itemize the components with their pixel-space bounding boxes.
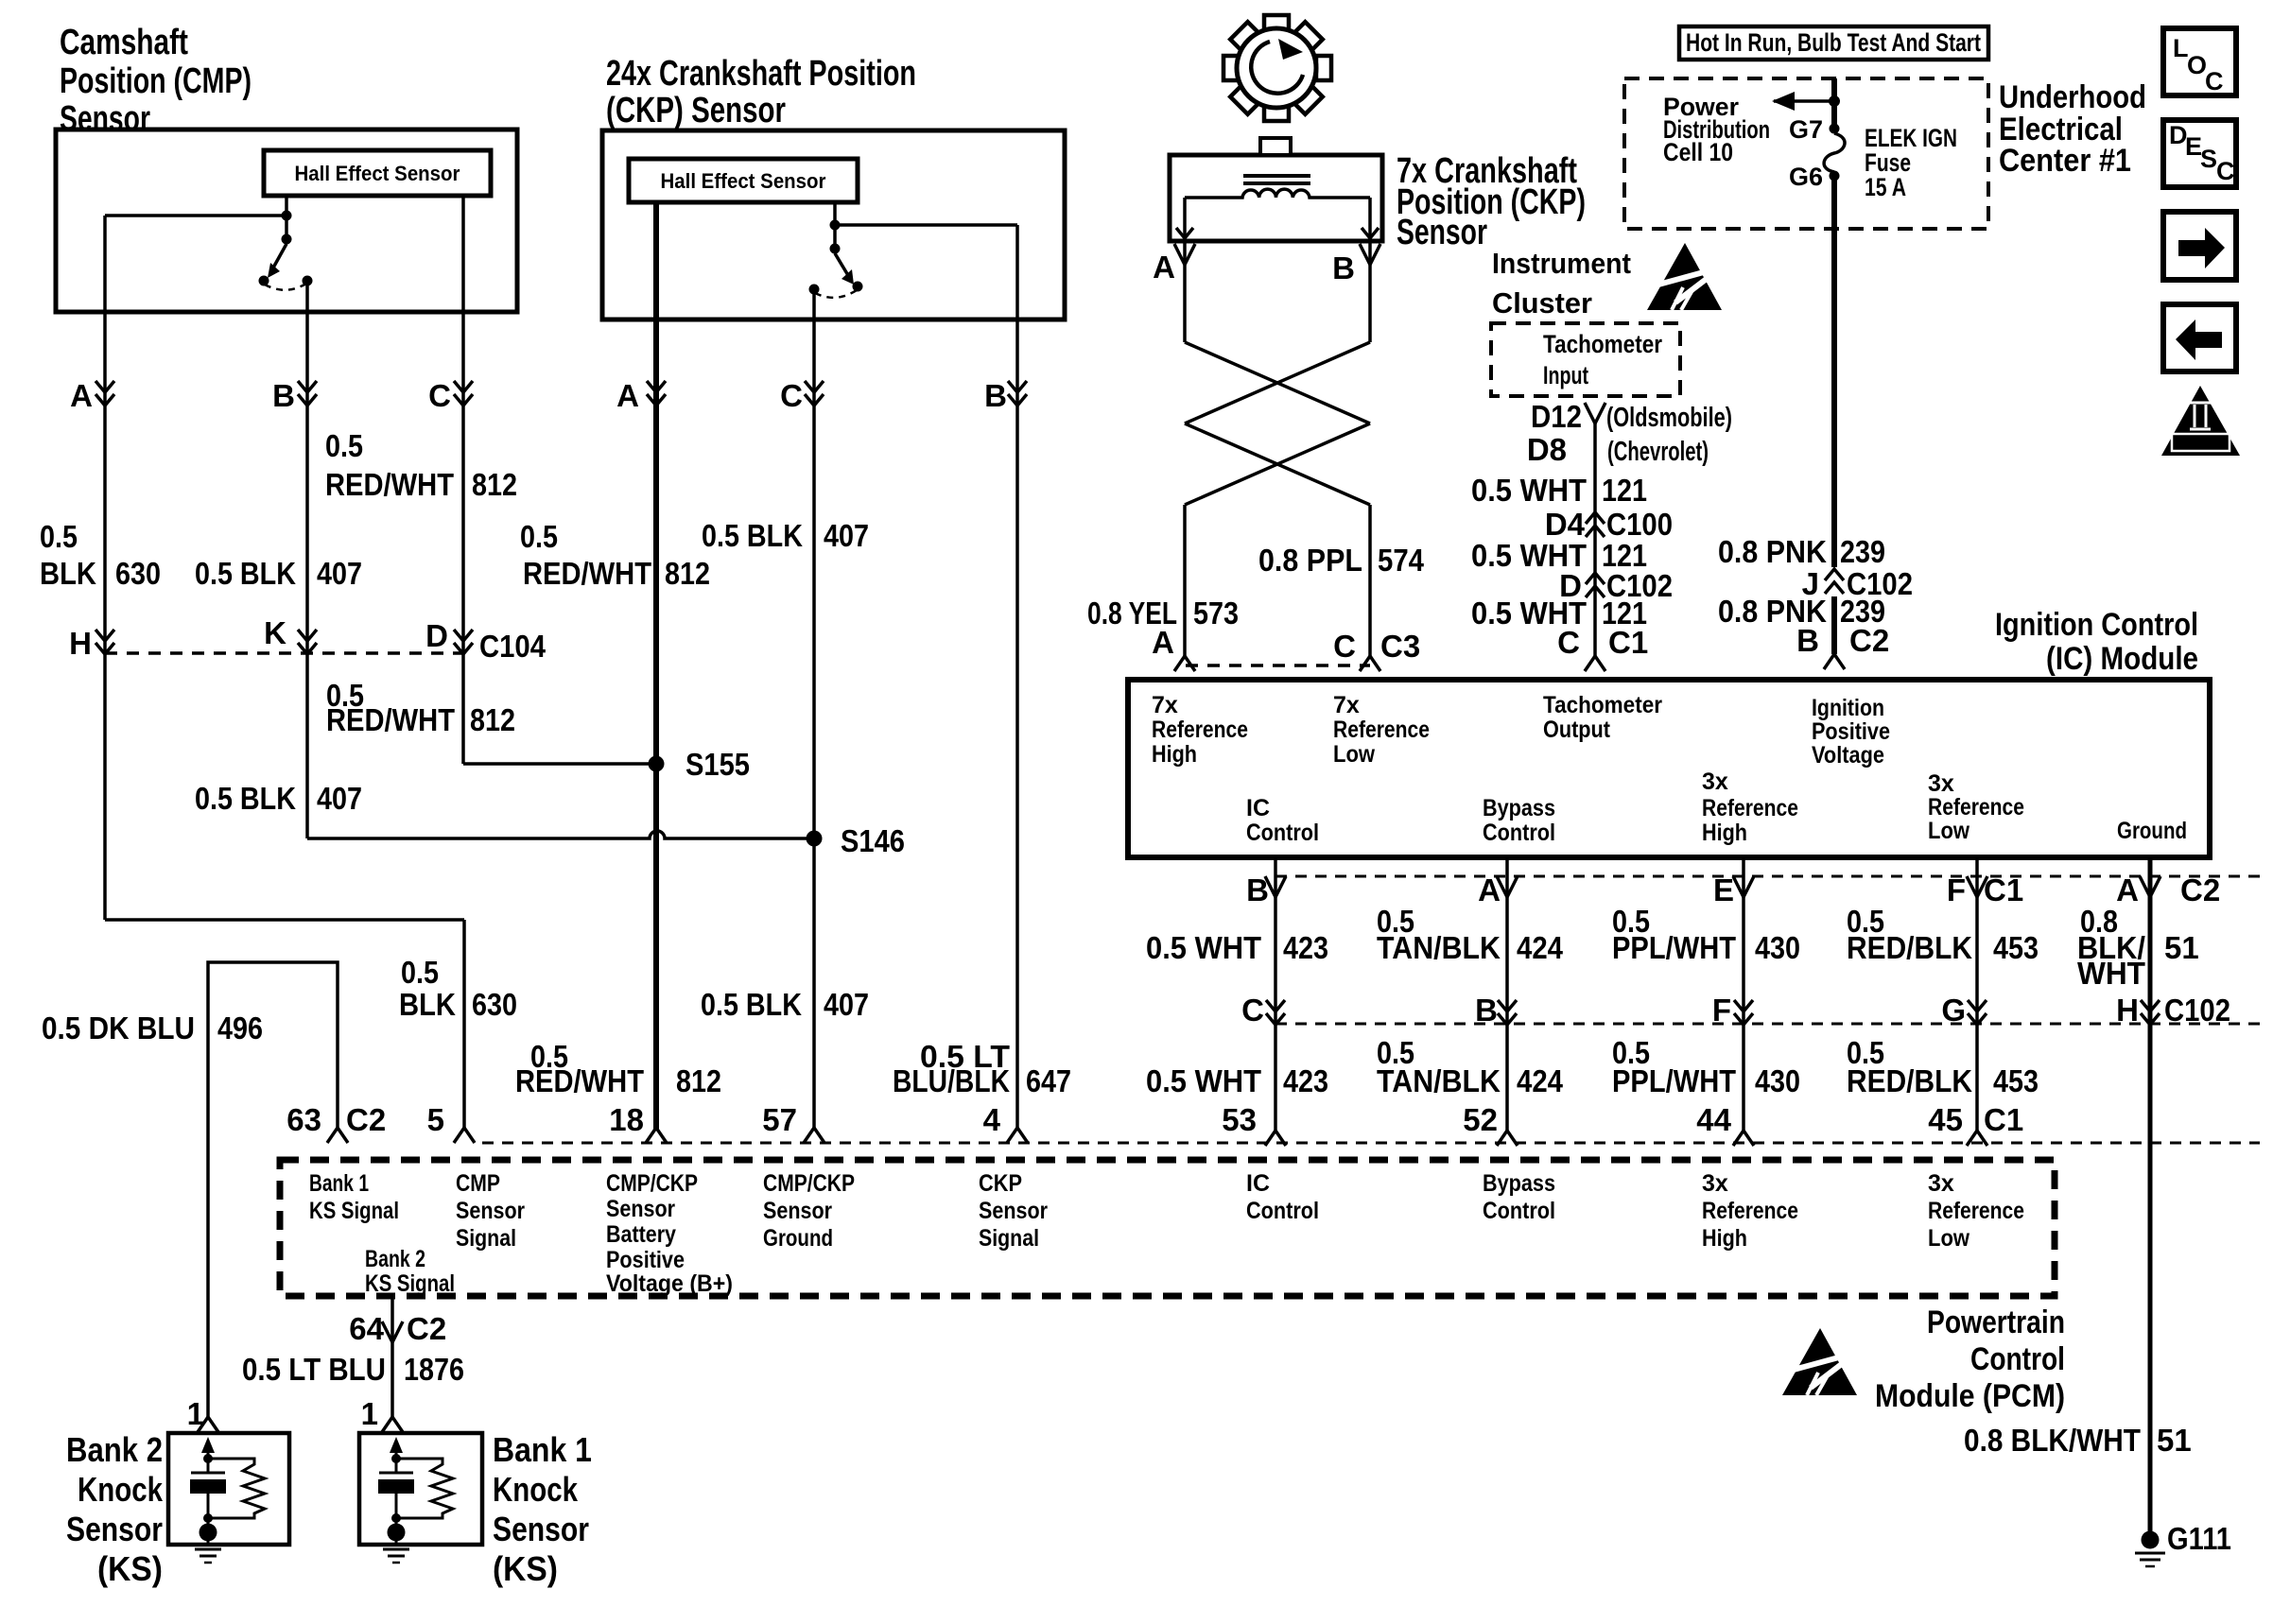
svg-text:High: High [1152, 741, 1197, 768]
svg-text:Position (CMP): Position (CMP) [60, 61, 252, 101]
svg-text:Bypass: Bypass [1483, 1170, 1555, 1197]
svg-text:Reference: Reference [1152, 717, 1248, 743]
svg-text:(KS): (KS) [97, 1549, 163, 1588]
svg-text:0.8 BLK/WHT: 0.8 BLK/WHT [1964, 1423, 2141, 1458]
svg-text:B: B [1246, 872, 1269, 907]
svg-text:Tachometer: Tachometer [1543, 692, 1662, 718]
svg-text:0.5 LT BLU: 0.5 LT BLU [242, 1352, 386, 1387]
svg-text:44: 44 [1696, 1102, 1731, 1137]
svg-text:A: A [2116, 872, 2139, 907]
svg-text:RED/BLK: RED/BLK [1847, 930, 1972, 965]
svg-text:C2: C2 [1849, 623, 1889, 658]
svg-text:0.8 PNK: 0.8 PNK [1718, 534, 1827, 569]
svg-text:BLU/BLK: BLU/BLK [893, 1063, 1010, 1098]
svg-text:Camshaft: Camshaft [60, 23, 188, 62]
svg-text:45: 45 [1928, 1102, 1963, 1137]
svg-text:TAN/BLK: TAN/BLK [1377, 1063, 1501, 1098]
svg-text:Input: Input [1543, 361, 1588, 389]
svg-text:C: C [428, 378, 451, 413]
svg-text:574: 574 [1378, 543, 1425, 578]
svg-text:F: F [1947, 872, 1966, 907]
svg-text:0.5 BLK: 0.5 BLK [702, 518, 803, 553]
svg-text:0.5 WHT: 0.5 WHT [1471, 473, 1587, 508]
svg-text:18: 18 [609, 1102, 644, 1137]
svg-text:0.5 BLK: 0.5 BLK [195, 781, 296, 816]
svg-text:High: High [1702, 1225, 1747, 1252]
svg-text:CMP/CKP: CMP/CKP [606, 1170, 698, 1197]
svg-text:D: D [425, 618, 448, 653]
svg-text:423: 423 [1283, 1063, 1328, 1098]
svg-text:Hall Effect Sensor: Hall Effect Sensor [661, 169, 826, 193]
svg-text:E: E [1713, 872, 1734, 907]
svg-text:CMP: CMP [456, 1170, 500, 1197]
svg-text:Sensor: Sensor [493, 1510, 589, 1548]
svg-text:B: B [1796, 623, 1819, 658]
svg-text:64: 64 [349, 1311, 384, 1346]
svg-text:0.5: 0.5 [401, 955, 439, 990]
svg-text:Bank 2: Bank 2 [365, 1246, 425, 1272]
svg-text:(KS): (KS) [493, 1549, 558, 1588]
svg-text:RED/WHT: RED/WHT [326, 702, 455, 737]
svg-text:PPL/WHT: PPL/WHT [1612, 930, 1736, 965]
svg-text:IC: IC [1246, 1170, 1270, 1197]
svg-text:B: B [1475, 993, 1498, 1028]
svg-text:OBD II: OBD II [2178, 435, 2222, 451]
svg-text:0.5: 0.5 [520, 519, 558, 554]
svg-text:Low: Low [1333, 741, 1375, 768]
svg-text:C: C [2205, 67, 2224, 95]
svg-text:BLK: BLK [399, 987, 456, 1022]
svg-text:A: A [616, 378, 639, 413]
svg-text:Knock: Knock [78, 1470, 164, 1509]
svg-text:121: 121 [1602, 473, 1647, 508]
svg-text:C2: C2 [407, 1311, 446, 1346]
svg-text:A: A [1478, 872, 1501, 907]
svg-text:Positive: Positive [606, 1247, 685, 1273]
svg-text:407: 407 [317, 556, 362, 591]
svg-text:A: A [1152, 625, 1174, 660]
svg-text:C: C [780, 378, 803, 413]
svg-text:496: 496 [217, 1011, 263, 1045]
svg-text:3x: 3x [1702, 1170, 1728, 1197]
svg-text:573: 573 [1193, 596, 1239, 631]
svg-text:G: G [1941, 993, 1966, 1028]
svg-text:51: 51 [2164, 930, 2199, 965]
svg-text:Battery: Battery [606, 1221, 676, 1248]
svg-text:O: O [2187, 51, 2207, 79]
svg-text:C1: C1 [1984, 1102, 2023, 1137]
svg-text:KS Signal: KS Signal [309, 1198, 399, 1224]
svg-text:1876: 1876 [404, 1352, 464, 1387]
svg-text:Ground: Ground [2117, 818, 2187, 844]
svg-text:C3: C3 [1380, 629, 1420, 664]
svg-text:0.8 PPL: 0.8 PPL [1258, 543, 1362, 578]
svg-text:Hot In Run, Bulb Test And Star: Hot In Run, Bulb Test And Start [1686, 28, 1981, 57]
svg-text:Reference: Reference [1702, 1198, 1798, 1224]
svg-text:Low: Low [1928, 1225, 1969, 1252]
svg-text:G6: G6 [1789, 163, 1823, 191]
svg-text:(CKP) Sensor: (CKP) Sensor [606, 91, 786, 130]
svg-text:Center #1: Center #1 [1999, 143, 2131, 179]
svg-text:BLK: BLK [40, 556, 96, 591]
svg-text:A: A [70, 378, 93, 413]
svg-text:239: 239 [1840, 534, 1885, 569]
svg-text:Control: Control [1483, 1198, 1555, 1224]
svg-text:C: C [1333, 629, 1356, 664]
svg-text:WHT: WHT [2077, 956, 2145, 991]
svg-text:453: 453 [1993, 1063, 2039, 1098]
svg-text:C102: C102 [2164, 993, 2230, 1028]
svg-text:IC: IC [1246, 795, 1270, 821]
svg-text:430: 430 [1755, 1063, 1800, 1098]
svg-text:407: 407 [317, 781, 362, 816]
svg-text:Cell 10: Cell 10 [1663, 138, 1733, 166]
svg-text:Ground: Ground [763, 1225, 833, 1252]
svg-text:Reference: Reference [1702, 795, 1798, 821]
svg-text:S155: S155 [685, 747, 750, 782]
svg-text:High: High [1702, 820, 1747, 846]
svg-text:7x: 7x [1152, 692, 1178, 718]
svg-text:3x: 3x [1702, 769, 1728, 795]
svg-text:430: 430 [1755, 930, 1800, 965]
svg-text:3x: 3x [1928, 770, 1954, 797]
svg-text:63: 63 [286, 1102, 321, 1137]
svg-text:Bank 1: Bank 1 [493, 1430, 592, 1469]
svg-text:KS Signal: KS Signal [365, 1270, 455, 1297]
svg-text:Ignition Control: Ignition Control [1995, 607, 2198, 643]
svg-text:630: 630 [472, 987, 517, 1022]
svg-text:C2: C2 [2180, 872, 2220, 907]
svg-text:(Chevrolet): (Chevrolet) [1607, 437, 1709, 467]
svg-text:0.5 BLK: 0.5 BLK [701, 987, 802, 1022]
svg-text:S146: S146 [841, 823, 905, 858]
svg-text:24x Crankshaft Position: 24x Crankshaft Position [606, 54, 916, 94]
svg-text:Bank 2: Bank 2 [66, 1430, 163, 1469]
svg-text:B: B [984, 378, 1007, 413]
svg-text:0.5: 0.5 [325, 428, 363, 463]
svg-text:Module (PCM): Module (PCM) [1875, 1378, 2065, 1414]
svg-text:1: 1 [187, 1396, 204, 1431]
svg-text:PPL/WHT: PPL/WHT [1612, 1063, 1736, 1098]
svg-text:51: 51 [2157, 1423, 2192, 1458]
svg-text:Sensor: Sensor [1397, 213, 1487, 252]
svg-text:C: C [1557, 625, 1580, 660]
svg-text:C2: C2 [346, 1102, 386, 1137]
svg-text:Signal: Signal [456, 1225, 516, 1252]
svg-text:453: 453 [1993, 930, 2039, 965]
svg-text:423: 423 [1283, 930, 1328, 965]
svg-text:TAN/BLK: TAN/BLK [1377, 930, 1501, 965]
svg-text:812: 812 [665, 556, 710, 591]
svg-text:C100: C100 [1606, 507, 1673, 542]
svg-text:RED/BLK: RED/BLK [1847, 1063, 1972, 1098]
svg-text:407: 407 [824, 987, 869, 1022]
svg-text:Low: Low [1928, 818, 1969, 844]
svg-text:Sensor: Sensor [763, 1198, 832, 1224]
svg-text:407: 407 [824, 518, 869, 553]
svg-text:Positive: Positive [1812, 718, 1890, 745]
svg-text:C: C [2216, 157, 2235, 185]
svg-text:Bypass: Bypass [1483, 795, 1555, 821]
svg-text:Hall Effect Sensor: Hall Effect Sensor [295, 162, 460, 185]
svg-text:Sensor: Sensor [456, 1198, 525, 1224]
svg-text:Powertrain: Powertrain [1927, 1304, 2065, 1340]
svg-text:Sensor: Sensor [66, 1510, 163, 1548]
svg-text:1: 1 [361, 1396, 378, 1431]
svg-text:812: 812 [472, 467, 517, 502]
svg-text:Output: Output [1543, 717, 1611, 743]
svg-text:53: 53 [1222, 1102, 1257, 1137]
svg-text:(Oldsmobile): (Oldsmobile) [1606, 403, 1732, 433]
svg-text:424: 424 [1517, 930, 1564, 965]
svg-text:Sensor: Sensor [979, 1198, 1048, 1224]
svg-text:0.5 WHT: 0.5 WHT [1146, 930, 1261, 965]
svg-text:D4: D4 [1545, 507, 1586, 542]
svg-text:CMP/CKP: CMP/CKP [763, 1170, 855, 1197]
svg-text:52: 52 [1463, 1102, 1498, 1137]
svg-text:CKP: CKP [979, 1170, 1022, 1197]
svg-text:15 A: 15 A [1865, 173, 1906, 201]
svg-text:647: 647 [1026, 1063, 1071, 1098]
svg-text:RED/WHT: RED/WHT [523, 556, 651, 591]
svg-text:Control: Control [1483, 820, 1555, 846]
svg-text:0.5: 0.5 [40, 519, 78, 554]
svg-text:Control: Control [1970, 1341, 2065, 1377]
svg-text:57: 57 [762, 1102, 797, 1137]
svg-text:G7: G7 [1789, 115, 1823, 144]
svg-text:G111: G111 [2167, 1521, 2231, 1556]
svg-text:Control: Control [1246, 820, 1319, 846]
svg-text:Reference: Reference [1333, 717, 1430, 743]
svg-text:7x: 7x [1333, 692, 1360, 718]
svg-text:Voltage (B+): Voltage (B+) [606, 1270, 733, 1297]
svg-text:3x: 3x [1928, 1170, 1954, 1197]
svg-text:K: K [264, 615, 286, 650]
svg-text:4: 4 [983, 1102, 1001, 1137]
svg-text:RED/WHT: RED/WHT [325, 467, 454, 502]
svg-text:Tachometer: Tachometer [1543, 330, 1662, 358]
svg-text:812: 812 [470, 702, 515, 737]
svg-text:Knock: Knock [493, 1470, 579, 1509]
svg-text:S: S [2200, 145, 2217, 173]
svg-text:(IC) Module: (IC) Module [2046, 641, 2198, 677]
svg-text:Control: Control [1246, 1198, 1319, 1224]
svg-text:RED/WHT: RED/WHT [515, 1063, 644, 1098]
svg-text:C: C [1241, 993, 1264, 1028]
svg-text:0.5 WHT: 0.5 WHT [1146, 1063, 1261, 1098]
svg-text:Voltage: Voltage [1812, 742, 1884, 769]
svg-text:H: H [2116, 993, 2139, 1028]
svg-text:B: B [1332, 251, 1355, 285]
svg-text:5: 5 [427, 1102, 444, 1137]
svg-text:Signal: Signal [979, 1225, 1039, 1252]
svg-text:Ignition: Ignition [1812, 695, 1884, 721]
svg-text:Bank 1: Bank 1 [309, 1170, 369, 1197]
svg-text:Reference: Reference [1928, 1198, 2024, 1224]
svg-text:D12: D12 [1531, 399, 1582, 434]
svg-text:C1: C1 [1984, 872, 2023, 907]
svg-text:424: 424 [1517, 1063, 1564, 1098]
svg-text:Sensor: Sensor [60, 99, 150, 139]
svg-text:F: F [1712, 993, 1731, 1028]
svg-text:630: 630 [115, 556, 161, 591]
svg-text:C104: C104 [479, 629, 547, 664]
svg-text:0.5 BLK: 0.5 BLK [195, 556, 296, 591]
svg-text:C1: C1 [1608, 625, 1648, 660]
svg-text:Sensor: Sensor [606, 1196, 675, 1222]
svg-text:Reference: Reference [1928, 794, 2024, 821]
svg-text:B: B [272, 378, 295, 413]
svg-text:H: H [69, 626, 92, 661]
svg-text:812: 812 [676, 1063, 721, 1098]
svg-text:Instrument: Instrument [1492, 247, 1631, 280]
svg-text:0.5 DK BLU: 0.5 DK BLU [42, 1011, 195, 1045]
svg-text:D8: D8 [1527, 432, 1567, 467]
svg-text:Cluster: Cluster [1492, 286, 1592, 320]
svg-text:Underhood: Underhood [1999, 79, 2146, 115]
svg-text:A: A [1153, 250, 1175, 285]
